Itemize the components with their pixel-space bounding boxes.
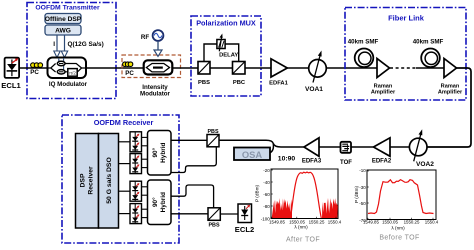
svg-text:-60: -60 <box>263 192 270 197</box>
pi/2 phase box <box>68 69 77 77</box>
balanced detector 1 <box>130 132 142 152</box>
Fiber Link dashed box <box>345 8 466 101</box>
wire IQ modulator to intensity modulator <box>86 67 145 69</box>
wire under fiber spool 2 <box>416 67 444 69</box>
Raman amplifier 2 <box>444 59 457 78</box>
svg-text:Receiver: Receiver <box>88 166 95 195</box>
svg-text:ECL1: ECL1 <box>1 81 21 90</box>
svg-text:P (dBm): P (dBm) <box>354 186 359 204</box>
spectrum plot Before TOF <box>367 170 436 220</box>
wire LO PBS to hybrid2 LO <box>171 213 208 215</box>
red dashed box around PC2 + intensity modulator <box>122 55 181 78</box>
balanced detector 3 <box>130 181 142 201</box>
svg-text:DELAY: DELAY <box>219 52 238 58</box>
VOA2 variable optical attenuator <box>409 138 427 156</box>
After TOF signal dome <box>291 172 322 218</box>
balanced detector 4 <box>130 204 142 224</box>
wire PBS to PBC <box>210 67 233 69</box>
svg-text:Amplifier: Amplifier <box>371 90 396 96</box>
PBS receiver (signal) <box>207 135 219 147</box>
svg-text:1550.4: 1550.4 <box>425 219 439 224</box>
IQ Modulator U1 <box>48 58 87 79</box>
OOFDM Receiver dashed box <box>62 115 179 243</box>
svg-text:OOFDM Receiver: OOFDM Receiver <box>94 118 154 127</box>
wire PBS rx second output to hybrid1 lower port <box>171 147 216 173</box>
wire VOA2 to EDFA2 <box>390 146 409 148</box>
svg-text:1550.25: 1550.25 <box>404 219 420 224</box>
svg-text:90°: 90° <box>151 197 159 207</box>
PBS (transmitter) <box>198 62 210 75</box>
intensity modulator <box>144 60 173 74</box>
svg-text:π/2: π/2 <box>69 70 76 75</box>
svg-text:Modulator: Modulator <box>140 90 170 97</box>
svg-text:VOA1: VOA1 <box>305 86 323 93</box>
DSP Receiver box <box>76 134 99 229</box>
wire TOF to EDFA3 <box>319 146 341 148</box>
polarization controller PC2 coils <box>123 62 128 67</box>
svg-text:-20: -20 <box>263 168 270 173</box>
svg-text:PBC: PBC <box>233 80 246 86</box>
svg-text:IQ Modulator: IQ Modulator <box>49 81 88 88</box>
svg-text:90°: 90° <box>151 147 159 157</box>
Offline DSP box <box>45 14 81 24</box>
fiber spool 2 <box>421 49 440 68</box>
svg-text:EDFA1: EDFA1 <box>269 81 288 87</box>
svg-text:Offline DSP: Offline DSP <box>45 16 82 23</box>
wire RF to intensity modulator <box>157 41 159 50</box>
delay path wire <box>204 44 239 62</box>
fiber spool 1 <box>355 49 374 68</box>
90 degree hybrid 2 <box>148 180 172 225</box>
wire fiber link output down to VOA2 <box>427 68 471 147</box>
polarization controller PC1 coils <box>31 63 36 68</box>
svg-text:Polarization MUX: Polarization MUX <box>196 19 256 28</box>
OOFDM Transmitter dashed box <box>27 3 116 99</box>
AWG box <box>45 25 81 35</box>
50G sa/s DSO box <box>99 134 119 229</box>
Raman amplifier 1 <box>377 59 390 78</box>
svg-text:PBS: PBS <box>198 80 210 86</box>
svg-text:1549.85: 1549.85 <box>363 219 379 224</box>
svg-text:P (dBm): P (dBm) <box>255 185 260 203</box>
svg-text:40km SMF: 40km SMF <box>413 39 444 46</box>
TOF tunable optical filter <box>341 142 352 153</box>
OSA optical spectrum analyzer <box>234 148 270 161</box>
RF source <box>153 30 164 41</box>
wire ECL1 to IQ modulator <box>19 67 47 69</box>
svg-text:-10: -10 <box>359 168 366 173</box>
svg-text:-50: -50 <box>359 201 366 206</box>
After TOF left noise <box>272 198 292 218</box>
wire I from AWG to IQ modulator <box>56 35 58 51</box>
svg-text:Hybrid: Hybrid <box>160 142 167 162</box>
wire ECL2 to LO PBS <box>220 213 238 215</box>
svg-text:PBS: PBS <box>208 223 219 229</box>
EDFA3 amplifier <box>304 138 319 157</box>
EDFA2 amplifier <box>374 138 391 157</box>
balanced detector 2 <box>130 154 142 174</box>
Polarization MUX dashed box <box>191 16 261 96</box>
svg-text:AWG: AWG <box>55 28 71 35</box>
svg-text:1550.05: 1550.05 <box>382 219 398 224</box>
svg-text:Q(12G Sa/s): Q(12G Sa/s) <box>68 41 104 48</box>
svg-text:OOFDM Transmitter: OOFDM Transmitter <box>35 5 100 12</box>
VOA1 variable optical attenuator <box>309 60 327 78</box>
svg-text:-80: -80 <box>263 204 270 209</box>
svg-text:VOA2: VOA2 <box>416 161 434 168</box>
dashed fiber wire <box>390 67 416 69</box>
svg-text:PBS: PBS <box>207 129 218 135</box>
svg-text:Before TOF: Before TOF <box>379 235 419 242</box>
svg-text:OSA: OSA <box>242 149 263 160</box>
svg-text:Fiber Link: Fiber Link <box>388 14 425 23</box>
wire Q from AWG to IQ modulator <box>64 35 66 51</box>
Before TOF signal trace <box>368 180 434 214</box>
wire hybrid1 signal to PBS rx <box>171 139 207 141</box>
svg-text:PC: PC <box>125 70 134 77</box>
svg-text:EDFA2: EDFA2 <box>372 159 392 165</box>
wire VOA1 to fiber <box>326 67 377 69</box>
wire EDFA1 to VOA1 <box>288 67 309 69</box>
EDFA1 amplifier <box>271 59 287 77</box>
svg-text:10:90: 10:90 <box>278 156 296 163</box>
svg-text:RF: RF <box>141 34 149 41</box>
wire EDFA2 to TOF <box>351 146 374 148</box>
svg-text:PC: PC <box>30 69 39 76</box>
10:90 coupler wires <box>219 140 304 147</box>
svg-text:-30: -30 <box>359 185 366 190</box>
svg-text:λ (nm): λ (nm) <box>391 226 405 231</box>
PBC <box>233 62 246 75</box>
wire intensity modulator to PBS <box>172 67 198 69</box>
svg-text:EDFA3: EDFA3 <box>302 159 322 165</box>
svg-text:λ (nm): λ (nm) <box>294 225 308 230</box>
svg-text:-40: -40 <box>263 180 270 185</box>
svg-text:40km SMF: 40km SMF <box>348 39 379 46</box>
wire LO PBS upper output to hybrid2 upper port <box>171 185 214 208</box>
svg-text:Hybrid: Hybrid <box>160 192 167 212</box>
After TOF right noise <box>322 198 338 218</box>
DELAY variable delay box <box>217 40 225 49</box>
svg-text:1549.85: 1549.85 <box>269 220 285 225</box>
svg-text:1550.25: 1550.25 <box>309 220 325 225</box>
PBS receiver (LO) <box>208 208 220 221</box>
svg-text:After TOF: After TOF <box>286 237 320 244</box>
wires DSO to balanced detectors <box>119 141 131 143</box>
svg-text:DSP: DSP <box>80 173 87 187</box>
svg-text:1550.4: 1550.4 <box>328 220 342 225</box>
spectrum plot After TOF <box>271 169 338 219</box>
ECL2 laser box <box>238 204 252 223</box>
svg-text:ECL2: ECL2 <box>235 225 254 234</box>
90 degree hybrid 1 <box>148 131 172 176</box>
svg-text:50 G sa/s DSO: 50 G sa/s DSO <box>106 157 113 203</box>
svg-text:TOF: TOF <box>340 160 352 166</box>
wire PBC to EDFA1 <box>245 67 271 69</box>
svg-text:I: I <box>53 41 55 48</box>
svg-text:Amplifier: Amplifier <box>438 90 463 96</box>
ECL1 laser box <box>5 58 20 78</box>
